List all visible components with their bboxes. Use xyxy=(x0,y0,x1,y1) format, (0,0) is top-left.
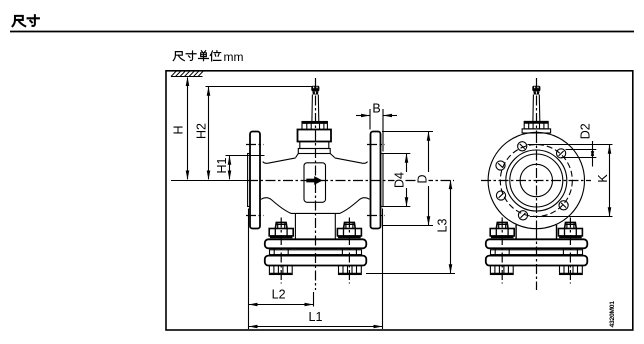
wall hatch (fixed-point symbol) xyxy=(171,70,204,76)
svg-text:D4: D4 xyxy=(392,172,406,188)
dimension H xyxy=(172,77,190,180)
right view vertical centerline xyxy=(536,78,538,133)
right flange bolt hole marks xyxy=(367,144,385,146)
upper stud nut right (right view) xyxy=(558,222,582,238)
dimension L3 xyxy=(435,180,452,274)
stem ball (left view) xyxy=(311,86,319,95)
svg-text:K: K xyxy=(596,174,610,183)
left flange plate xyxy=(250,132,260,229)
dimension L2 xyxy=(249,288,314,307)
valve body outline (left view) xyxy=(263,158,368,163)
label 尺寸单位 mm xyxy=(173,51,221,61)
stem (left view) xyxy=(312,95,319,122)
lower bolt thread right (left view) xyxy=(339,266,362,275)
svg-text:D: D xyxy=(415,174,429,183)
left flange raised face xyxy=(248,154,250,207)
right flange raised face xyxy=(381,154,384,207)
bottom flange lower plate (left view) xyxy=(265,256,367,266)
L2 right extension line xyxy=(313,292,315,307)
body bottom neck (left view) xyxy=(294,213,296,239)
bolt centerline right (right view) xyxy=(569,218,571,284)
dimension L1 xyxy=(249,310,383,329)
dimension D2 xyxy=(578,123,594,166)
raised face circle xyxy=(510,154,563,207)
stem ball (right view) xyxy=(532,86,540,95)
L1 L2 left extension line xyxy=(248,209,250,330)
svg-text:L3: L3 xyxy=(435,219,449,233)
dimension H2 xyxy=(195,87,312,180)
main horizontal centerline (left view) xyxy=(171,180,248,182)
D2 extension lines xyxy=(566,149,597,151)
svg-text:L2: L2 xyxy=(272,288,286,302)
bonnet step row3 (left view) xyxy=(300,142,329,149)
lower bolt bottom edges xyxy=(270,273,361,275)
svg-text:4320M01: 4320M01 xyxy=(609,301,616,328)
stem base flange (right view) xyxy=(522,129,551,133)
bolt shanks between plates (right view) xyxy=(495,248,577,255)
K bottom extension line xyxy=(530,216,613,218)
bolt hole dash ticks xyxy=(498,144,566,218)
bottom gasket (right view) xyxy=(491,250,583,255)
svg-text:mm: mm xyxy=(224,50,244,64)
svg-text:B: B xyxy=(372,102,380,116)
bolt holes xyxy=(496,142,568,220)
upper stud nut left (right view) xyxy=(490,222,514,238)
bolt circle (dashed) xyxy=(500,145,572,217)
right view horizontal centerline xyxy=(481,180,591,182)
lower bolt thread right (right view) xyxy=(560,266,583,275)
bolt centerline left (left view) xyxy=(280,218,282,284)
hub circle xyxy=(506,150,567,211)
bolt centerline right (left view) xyxy=(348,218,350,284)
flange outer circle xyxy=(488,132,584,228)
flow arrow xyxy=(306,176,322,185)
L1 right extension line xyxy=(382,209,384,330)
upper stud nut right (left view) xyxy=(337,222,361,238)
bottom flange lower plate (right view) xyxy=(486,256,588,266)
bottom flange upper plate (left view) xyxy=(265,239,367,248)
upper stud nut left (left view) xyxy=(269,222,293,238)
lower bolt thread left (left view) xyxy=(269,266,292,275)
bottom neck lines (right view) xyxy=(516,225,556,240)
title 尺寸 (hand-drawn CJK glyphs) xyxy=(13,15,39,26)
bonnet flare (left view) xyxy=(296,154,335,158)
L3 bottom extension line xyxy=(366,273,455,275)
dimension D xyxy=(382,132,433,226)
dimension K xyxy=(596,145,612,217)
flow direction box xyxy=(304,163,326,203)
dimension D4 xyxy=(381,154,410,207)
bonnet step row2 (left view) xyxy=(298,130,332,142)
stem hex nut (right view) xyxy=(524,121,548,128)
left flange bolt hole marks xyxy=(246,144,264,146)
K top extension line xyxy=(528,144,613,146)
svg-text:H2: H2 xyxy=(195,123,209,139)
right flange plate xyxy=(371,132,381,229)
bonnet step row4 (left view) xyxy=(298,149,330,154)
svg-text:H: H xyxy=(172,125,186,134)
bolt shanks between plates (left view) xyxy=(274,248,356,255)
horizontal rule under title xyxy=(10,31,634,33)
valve vertical centerline (left view) xyxy=(315,78,317,290)
svg-text:H1: H1 xyxy=(215,157,229,173)
stem (right view) xyxy=(533,95,540,122)
drawing frame box xyxy=(166,71,633,330)
bonnet step row1 hex nut (left view) xyxy=(302,122,327,130)
bore circle xyxy=(520,164,552,196)
bolt centerline left (right view) xyxy=(501,218,503,284)
lower bolt thread left (right view) xyxy=(490,266,513,275)
bottom gasket (left view) xyxy=(270,250,362,255)
svg-text:D2: D2 xyxy=(578,123,592,139)
svg-text:L1: L1 xyxy=(309,310,323,324)
bottom flange upper plate (right view) xyxy=(486,239,588,248)
dimension H1 xyxy=(215,156,264,180)
dimension B xyxy=(356,102,397,152)
